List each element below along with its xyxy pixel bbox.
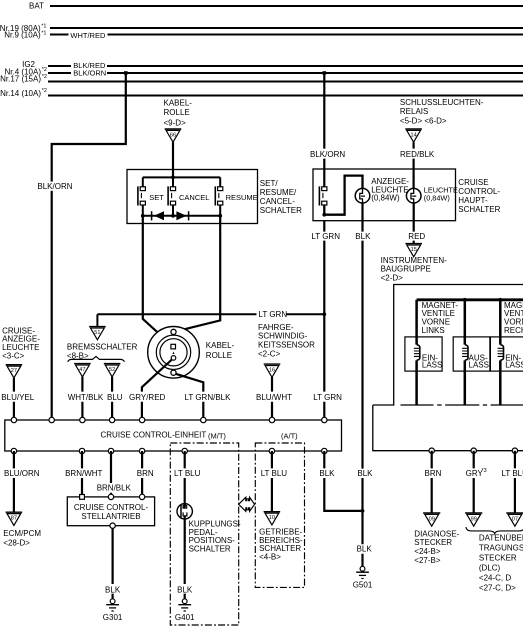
- wire: BLK to G401: [177, 519, 193, 599]
- wire: LT BLU to range switch: [261, 451, 288, 511]
- wire: fuse Nr.19 (80A) bus: [0, 24, 523, 33]
- svg-text:LT GRN: LT GRN: [259, 310, 288, 319]
- svg-text:ROLLE: ROLLE: [164, 108, 190, 117]
- ground G301: [103, 599, 123, 622]
- svg-text:DIAGNOSE-: DIAGNOSE-: [414, 529, 459, 538]
- switch main ON contacts: [319, 186, 327, 205]
- connector triangle 47 (brake switch): [74, 364, 91, 377]
- svg-text:TRAGUNGS-: TRAGUNGS-: [479, 544, 523, 553]
- wire: BLU/YEL to unit: [1, 378, 34, 420]
- switch SET contacts: [138, 186, 146, 205]
- svg-text:BLK: BLK: [177, 585, 193, 594]
- svg-text:LASS: LASS: [422, 361, 442, 370]
- svg-text:CANCEL-: CANCEL-: [260, 197, 295, 206]
- label KABEL-ROLLE: [206, 341, 235, 360]
- ground G401: [175, 599, 195, 622]
- wire: BLK from main switch lamp down to G501: [355, 203, 373, 566]
- wire: GRY to DLC: [466, 451, 487, 513]
- svg-text:GRY/RED: GRY/RED: [129, 393, 166, 402]
- unit B bottom pins: [429, 448, 518, 453]
- svg-text:STELLANTRIEB: STELLANTRIEB: [81, 512, 140, 521]
- svg-text:KABEL-: KABEL-: [164, 98, 193, 107]
- svg-text:LT GRN/BLK: LT GRN/BLK: [185, 393, 232, 402]
- wire: BLU/WHT to unit: [256, 377, 292, 420]
- connector triangle 28-D (ECM/PCM): [6, 512, 23, 525]
- svg-text:10: 10: [269, 515, 275, 521]
- node DIAGNOSE-STECKER label: [414, 529, 459, 564]
- wire: fuse Nr.17 (15A) bus: [0, 74, 523, 83]
- node GETRIEBE-BEREICHS-SCHALTER label: [259, 528, 303, 562]
- unit bottom pin row: [11, 448, 327, 453]
- svg-text:Nr.9 (10A): Nr.9 (10A): [4, 31, 41, 40]
- svg-text:RED: RED: [408, 232, 425, 241]
- diode D2 (points right): [176, 211, 188, 220]
- switch box: CRUISE CONTROL-HAUPTSCHALTER: [313, 169, 456, 221]
- dashed option box (M/T) clutch pedal switch: [170, 443, 238, 625]
- label SET/RESUME/CANCEL-SCHALTER: [260, 179, 302, 215]
- connector triangle 9-D (cable reel): [165, 129, 182, 142]
- svg-text:<4-B>: <4-B>: [259, 553, 281, 562]
- lamp LEUCHTE: [406, 188, 421, 203]
- svg-text:BRN/BLK: BRN/BLK: [97, 484, 132, 493]
- svg-text:STECKER: STECKER: [479, 554, 517, 563]
- svg-text:LT GRN: LT GRN: [313, 393, 342, 402]
- svg-text:*2: *2: [42, 74, 47, 80]
- svg-text:<28-D>: <28-D>: [3, 538, 30, 547]
- svg-text:16: 16: [269, 368, 275, 374]
- svg-text:(M/T): (M/T): [208, 431, 226, 440]
- actuator pins: [80, 495, 85, 500]
- svg-text:(A/T): (A/T): [281, 431, 298, 440]
- unit top pin row: [11, 417, 327, 422]
- modulator assembly box (top right, cut): [394, 285, 523, 406]
- svg-text:ECM/PCM: ECM/PCM: [3, 529, 41, 538]
- solenoid coil EINLASS 1: [414, 345, 420, 361]
- valve box front-left: [405, 337, 442, 371]
- wire: LT BLU to DLC: [502, 451, 523, 513]
- option arrow M/T vs A/T: [239, 497, 255, 511]
- svg-text:BLU: BLU: [107, 393, 123, 402]
- svg-text:BAT: BAT: [29, 1, 44, 10]
- wire: BLK/ORN drop to main switch: [310, 73, 345, 187]
- wire: BRN/WHT to actuator: [65, 451, 102, 495]
- svg-text:BLK: BLK: [355, 232, 371, 241]
- label KUPPLUNGS-PEDAL-POSITIONS-SCHALTER: [189, 520, 241, 554]
- svg-text:*2: *2: [42, 88, 47, 94]
- svg-text:KABEL-: KABEL-: [206, 341, 235, 350]
- svg-text:<24-C, D: <24-C, D: [479, 574, 511, 583]
- svg-text:CONTROL-: CONTROL-: [458, 187, 500, 196]
- label LEUCHTE (0,84W): [424, 185, 458, 202]
- svg-text:<2-C>: <2-C>: [258, 349, 281, 358]
- svg-text:(DLC): (DLC): [479, 564, 501, 573]
- connector triangle 51 (horn/cable reel): [89, 327, 106, 340]
- label MAGNETVENTILE VORNE LINKS: [422, 301, 459, 335]
- wire: BLK/ORN drop to cruise unit (left): [37, 73, 125, 420]
- svg-text:KEITSSENSOR: KEITSSENSOR: [258, 341, 315, 350]
- svg-text:SET: SET: [149, 193, 164, 202]
- wire: GRY/RED from cable reel to unit: [129, 359, 173, 420]
- svg-text:SCHALTER: SCHALTER: [458, 205, 500, 214]
- solenoid coil EINLASS 2: [498, 345, 504, 361]
- svg-text:BREMSSCHALTER: BREMSSCHALTER: [67, 342, 138, 351]
- wire: inlet solenoid 2 drop: [499, 300, 502, 405]
- svg-text:52: 52: [109, 367, 115, 373]
- svg-text:<24-B>: <24-B>: [414, 547, 441, 556]
- svg-text:<27-C, D>: <27-C, D>: [479, 584, 516, 593]
- svg-text:(0,84W): (0,84W): [424, 193, 450, 202]
- wire: LT GRN horizontal branch: [97, 310, 324, 326]
- svg-text:FAHRGE-: FAHRGE-: [258, 323, 294, 332]
- junction: BLK/ORN taps on bus: [124, 71, 128, 74]
- svg-text:LASS: LASS: [505, 361, 523, 370]
- wire: BLU to unit: [107, 377, 123, 420]
- svg-text:SCHALTER: SCHALTER: [189, 545, 231, 554]
- valve box middle: [453, 337, 490, 371]
- wire: outlet solenoid drop: [464, 300, 467, 405]
- svg-text:LT BLU: LT BLU: [261, 469, 288, 478]
- actuator box: CRUISE CONTROL-STELLANTRIEB: [67, 497, 154, 526]
- wire: LT GRN from main switch to unit: [311, 221, 340, 420]
- switch RESUME contacts: [215, 186, 223, 205]
- svg-text:<27-B>: <27-B>: [414, 556, 441, 565]
- wire: main switch internal link to indicator lamp: [324, 176, 362, 215]
- svg-text:SCHALTER: SCHALTER: [260, 206, 302, 215]
- svg-text:RESUME/: RESUME/: [260, 188, 297, 197]
- svg-text:*1: *1: [41, 24, 46, 30]
- ground G501: [353, 566, 373, 589]
- connector triangle 2-D (instrument cluster): [405, 244, 422, 257]
- svg-text:BLU/ORN: BLU/ORN: [4, 469, 40, 478]
- control unit box: CRUISE CONTROL-EINHEIT: [5, 420, 342, 451]
- label CRUISE CONTROL-HAUPT-SCHALTER: [458, 178, 500, 214]
- svg-text:BLK: BLK: [105, 585, 121, 594]
- svg-text:Nr.17 (15A): Nr.17 (15A): [0, 74, 41, 83]
- svg-text:SET/: SET/: [260, 179, 279, 188]
- cable reel pins and core contacts: [171, 329, 176, 375]
- svg-text:RESUME: RESUME: [226, 193, 258, 202]
- node INSTRUMENTEN-BAUGRUPPE label: [381, 256, 448, 282]
- valve box front-right (cut): [490, 337, 523, 371]
- wire: BRN to actuator: [137, 451, 154, 495]
- connector triangle 24-B/27-B (diagnostic): [423, 513, 440, 526]
- svg-text:CANCEL: CANCEL: [179, 193, 209, 202]
- svg-text:LT BLU: LT BLU: [174, 469, 201, 478]
- svg-text:RECHTS: RECHTS: [504, 326, 523, 335]
- svg-text:<3-C>: <3-C>: [2, 352, 25, 361]
- wire: LT BLU to clutch pedal switch: [174, 451, 201, 504]
- node ECM/PCM label: [3, 529, 41, 547]
- wire: 9-D feed into SET/RESUME switch: [172, 142, 174, 177]
- label ANZEIGE-LEUCHTE (0,84W): [371, 177, 409, 202]
- connector triangle 5-D/6-D (tail light relay): [405, 129, 422, 142]
- svg-text:BLK: BLK: [357, 545, 373, 554]
- svg-text:51: 51: [94, 330, 100, 336]
- label MAGNETVENTILE VORNE RECHTS (cut): [504, 301, 523, 335]
- svg-text:66: 66: [170, 133, 176, 139]
- svg-text:27: 27: [11, 368, 17, 374]
- wire: BRN to diagnostic connector: [425, 451, 442, 513]
- svg-text:CRUISE CONTROL-: CRUISE CONTROL-: [74, 503, 149, 512]
- label EIN-LASS 2: [505, 354, 523, 370]
- control unit box (bottom right, cut): [373, 405, 523, 451]
- svg-text:47: 47: [79, 367, 85, 373]
- wire: BLK from actuator to G301: [105, 526, 121, 599]
- svg-text:BLK/ORN: BLK/ORN: [37, 182, 72, 191]
- svg-text:87: 87: [11, 516, 17, 522]
- connector triangle DLC LT BLU: [506, 513, 523, 526]
- svg-text:*2: *2: [42, 67, 47, 73]
- svg-text:G401: G401: [175, 613, 195, 622]
- svg-text:BLK/ORN: BLK/ORN: [310, 150, 345, 159]
- svg-text:DATENÜBER-: DATENÜBER-: [479, 534, 523, 543]
- wire: solenoid supply bus bar: [417, 298, 523, 301]
- label AUS-LASS: [469, 354, 489, 370]
- wire: BRN/BLK to actuator: [97, 451, 132, 495]
- svg-text:BLK/ORN: BLK/ORN: [73, 69, 106, 78]
- svg-text:LASS: LASS: [469, 361, 489, 370]
- switch: KUPPLUNGS-PEDAL-POSITIONS-SCHALTER symbol: [177, 504, 192, 519]
- svg-text:ROLLE: ROLLE: [206, 351, 232, 360]
- svg-text:BLK: BLK: [319, 469, 335, 478]
- cable reel KABELROLLE body: [148, 327, 200, 379]
- svg-text:BRN/WHT: BRN/WHT: [65, 469, 102, 478]
- solenoid coil AUSLASS: [462, 345, 468, 361]
- wire: BLK unit ground link to G501: [319, 451, 362, 511]
- svg-text:LT GRN: LT GRN: [311, 232, 340, 241]
- wire: fuse Nr.14 (10A) bus: [0, 88, 523, 98]
- svg-text:*3: *3: [482, 468, 487, 474]
- connector triangle 3-C (cruise indicator): [6, 365, 23, 378]
- svg-text:G301: G301: [103, 613, 123, 622]
- svg-text:WHT/BLK: WHT/BLK: [68, 393, 104, 402]
- switch CANCEL contacts: [168, 186, 175, 205]
- svg-text:(0,84W): (0,84W): [371, 193, 400, 202]
- svg-text:STECKER: STECKER: [414, 538, 452, 547]
- wire: SET side output into cable reel core: [143, 216, 173, 346]
- svg-text:99: 99: [471, 517, 477, 523]
- svg-text:BRN: BRN: [425, 469, 442, 478]
- svg-text:Nr.14 (10A): Nr.14 (10A): [0, 89, 41, 98]
- wire: switch bottom bus with junctions: [143, 205, 220, 216]
- svg-text:BLK: BLK: [357, 469, 373, 478]
- svg-text:<9-D>: <9-D>: [164, 119, 187, 128]
- svg-text:<5-D> <6-D>: <5-D> <6-D>: [400, 116, 447, 125]
- svg-text:09: 09: [429, 517, 435, 523]
- wire: WHT/BLK to unit: [68, 377, 104, 420]
- svg-text:15: 15: [411, 247, 417, 253]
- brace under DLC triangles: [466, 527, 523, 534]
- connector triangle DLC GRY: [465, 513, 482, 526]
- node FAHRGESCHWINDIGKEITSSENSOR label: [258, 323, 315, 358]
- svg-text:RED/BLK: RED/BLK: [400, 150, 435, 159]
- svg-text:BLU/YEL: BLU/YEL: [1, 393, 34, 402]
- svg-text:BLU/WHT: BLU/WHT: [256, 393, 292, 402]
- node DATENUEBERTRAGUNGSSTECKER label: [479, 534, 523, 593]
- wire: fuse Nr.4 (10A) BLK/RED bus: [5, 61, 523, 77]
- switch box: SET/RESUME/CANCEL-SCHALTER: [127, 170, 258, 224]
- connector triangle 4-B (transmission range switch): [264, 512, 281, 525]
- svg-text:G501: G501: [353, 580, 373, 589]
- wire: fuse Nr.9 (10A) WHT/RED bus: [4, 31, 523, 41]
- connector triangle 52 (brake switch): [104, 364, 121, 377]
- node BREMSSCHALTER label: [67, 342, 138, 360]
- lamp ANZEIGE-LEUCHTE: [355, 188, 370, 203]
- wire: inlet solenoid 1 drop: [415, 300, 418, 405]
- svg-text:LINKS: LINKS: [422, 326, 445, 335]
- svg-text:BRN: BRN: [137, 469, 154, 478]
- node SCHLUSSLEUCHTEN-RELAIS label: [400, 98, 484, 125]
- svg-text:CRUISE CONTROL-EINHEIT: CRUISE CONTROL-EINHEIT: [101, 430, 207, 439]
- svg-text:WHT/RED: WHT/RED: [70, 31, 106, 40]
- svg-text:SCHLUSSLEUCHTEN-: SCHLUSSLEUCHTEN-: [400, 98, 484, 107]
- wire: LT GRN/BLK from cable reel to unit: [175, 373, 232, 419]
- wire: RED/BLK from relay to main switch: [400, 142, 435, 188]
- svg-text:SCHWINDIG-: SCHWINDIG-: [258, 332, 308, 341]
- wire: BLU/ORN to ECM/PCM: [4, 451, 40, 512]
- svg-text:07: 07: [512, 517, 518, 523]
- node CRUISE-ANZEIGE-LEUCHTE label: [2, 326, 40, 360]
- label EIN-LASS 1: [422, 354, 442, 370]
- svg-text:14: 14: [410, 133, 416, 139]
- wire: RESUME side output to cable reel ring pin: [174, 216, 221, 332]
- svg-text:<2-D>: <2-D>: [381, 273, 404, 282]
- diode D1 (points left): [152, 211, 164, 220]
- wire: BAT bus: [29, 1, 523, 10]
- dashed option box (A/T) transmission range switch: [255, 443, 304, 587]
- label CRUISE CONTROL-EINHEIT (M/T) (A/T): [101, 430, 299, 440]
- wire: BLK/ORN bus: [48, 69, 523, 78]
- svg-text:CRUISE: CRUISE: [458, 178, 488, 187]
- brace over brake switch triangles: [68, 356, 125, 361]
- wire: switch top bus: [143, 177, 220, 187]
- svg-text:*1: *1: [41, 31, 46, 37]
- svg-text:RELAIS: RELAIS: [400, 107, 428, 116]
- wire: RED from main switch to instrument cluster: [408, 203, 425, 243]
- connector triangle 2-C (speed sensor): [264, 364, 281, 377]
- svg-text:LT BLU: LT BLU: [502, 469, 523, 478]
- svg-text:HAUPT-: HAUPT-: [458, 196, 488, 205]
- node KABELROLLE 9-D label: [164, 98, 193, 127]
